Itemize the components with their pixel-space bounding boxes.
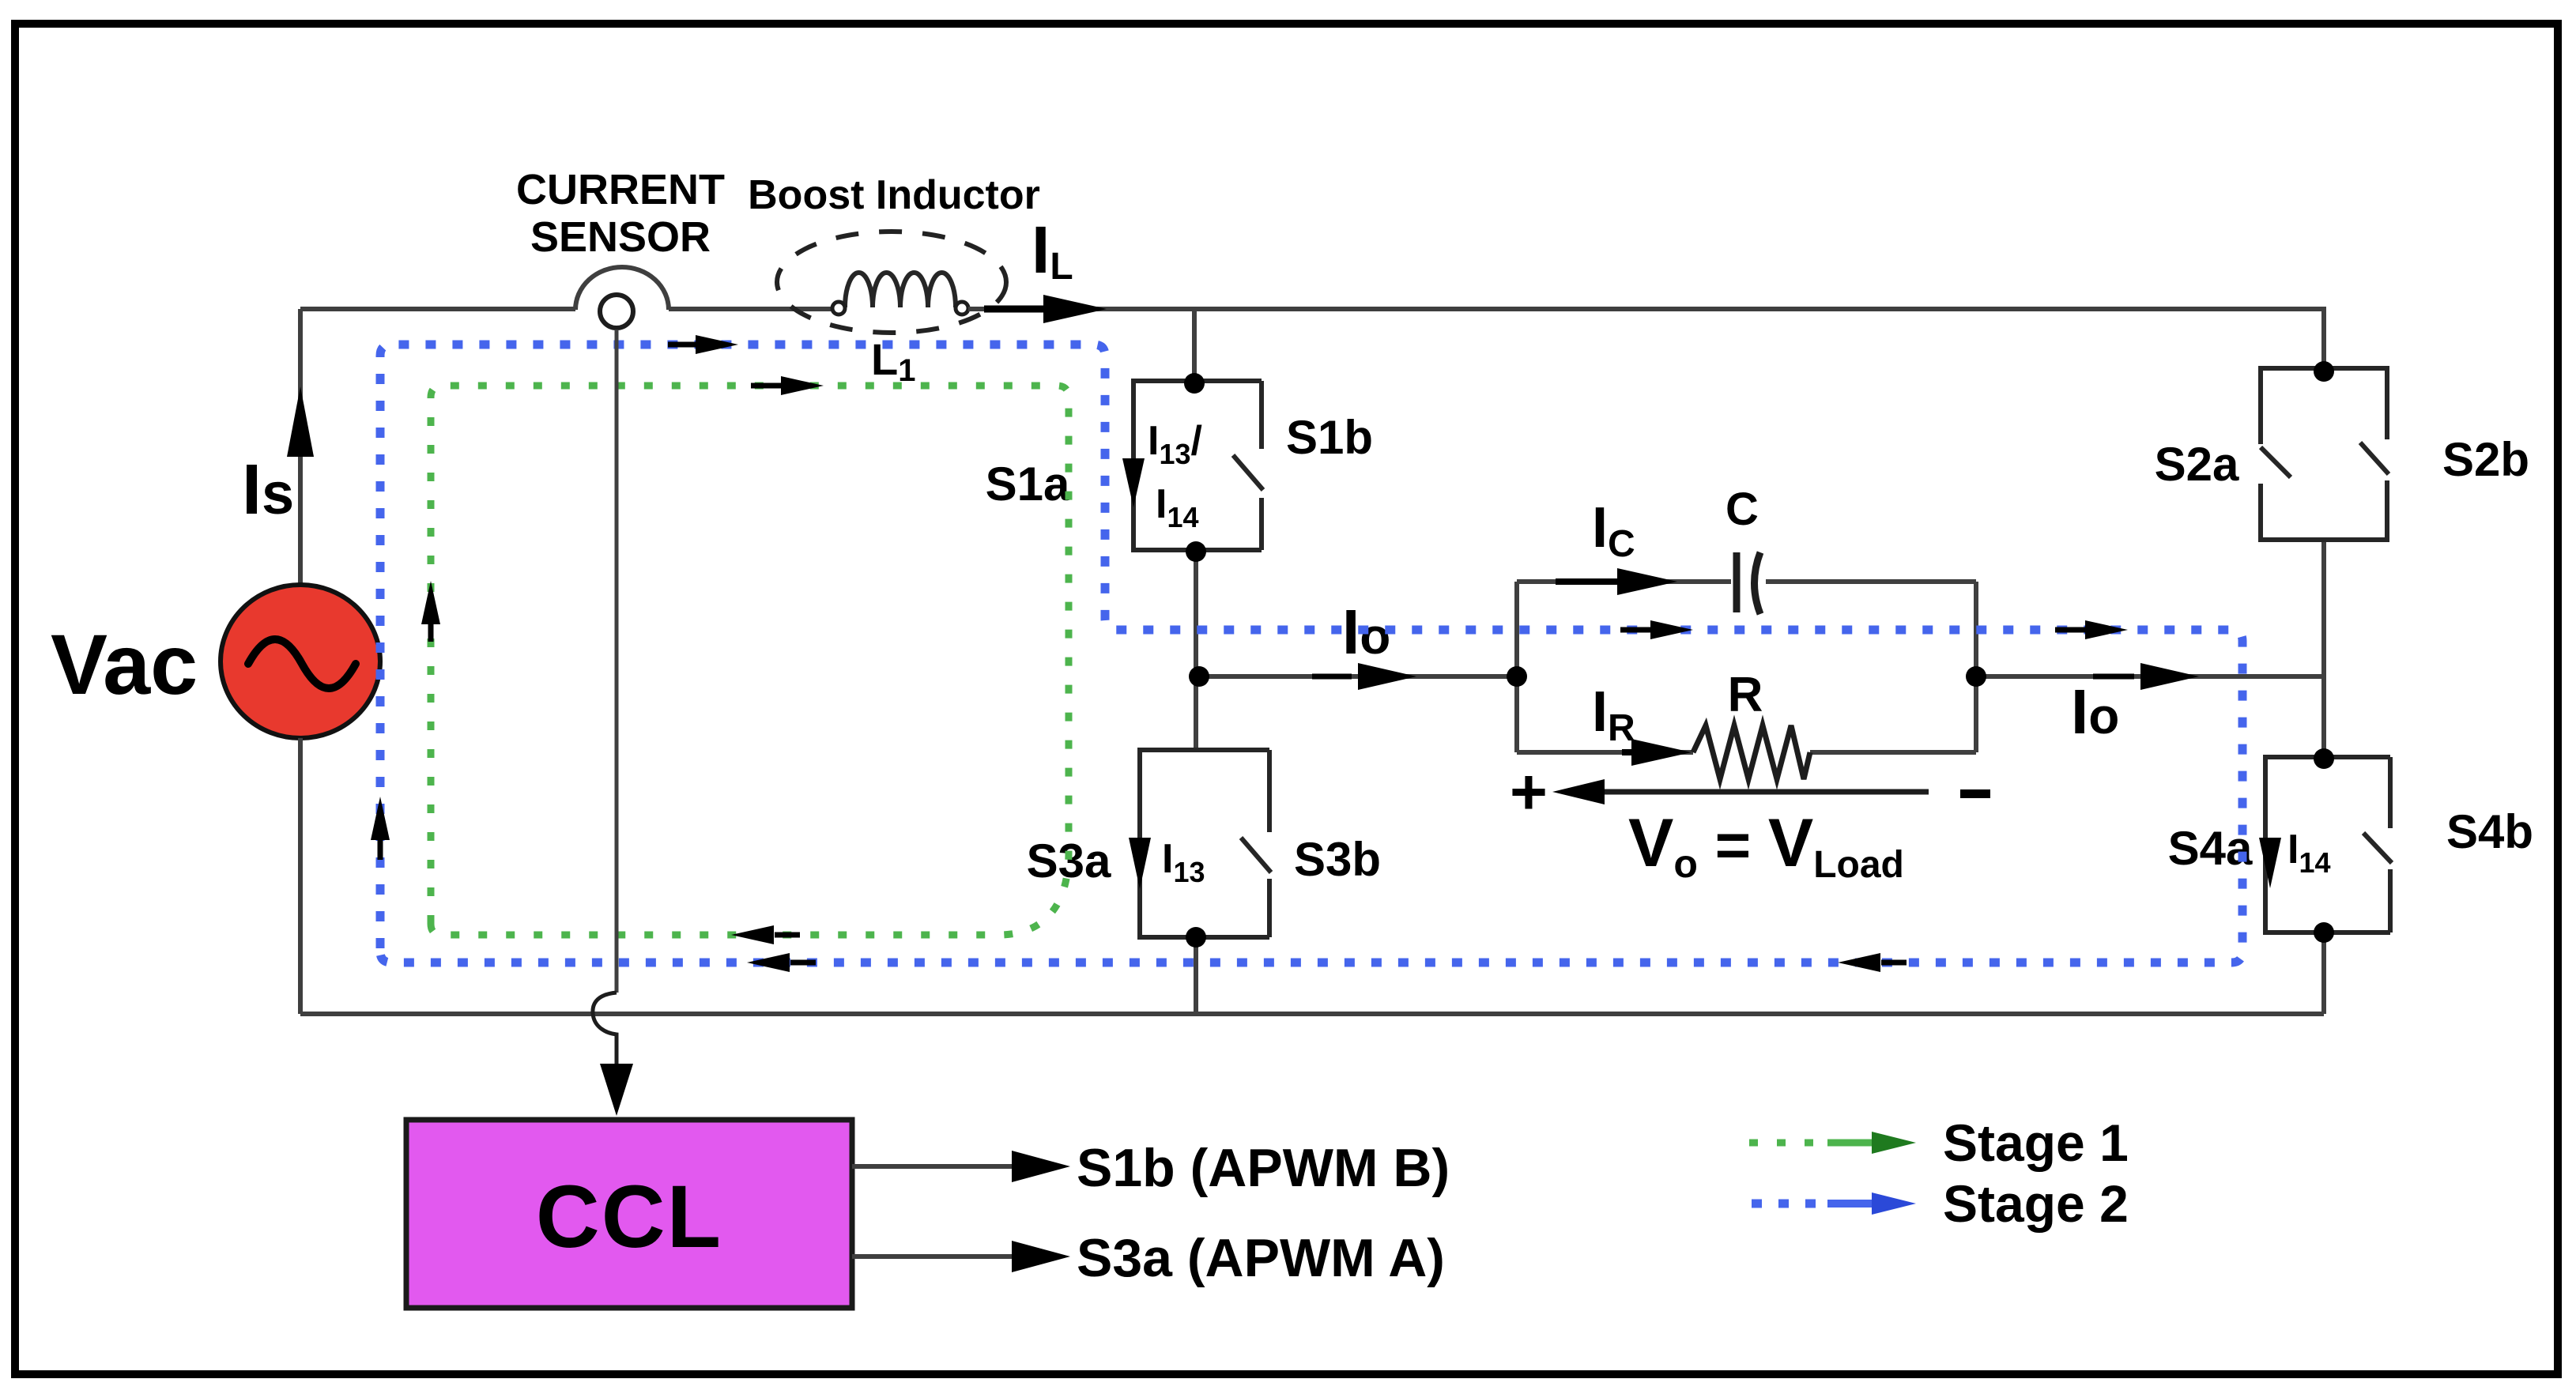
svg-text:Stage 2: Stage 2 (1943, 1174, 2129, 1233)
label minus (1960, 789, 1990, 798)
wire CCL output S3a (852, 1254, 1016, 1259)
wire: top rail left segment (300, 307, 575, 311)
arrow on green bottom line (775, 932, 800, 938)
current sensor window circle (600, 295, 633, 328)
wire: Io output wire right (1976, 674, 2324, 679)
svg-text:S2b: S2b (2442, 433, 2529, 486)
RC load box left side (1514, 582, 1519, 752)
arrow on blue middle line in RC box (1620, 627, 1652, 633)
svg-text:S1b (APWM B): S1b (APWM B) (1077, 1138, 1450, 1198)
svg-text:R: R (1728, 668, 1763, 722)
svg-text:S4b: S4b (2446, 805, 2533, 858)
node RC right (1966, 666, 1986, 687)
wire: top rail between sensor and inductor (669, 307, 835, 311)
svg-text:CURRENT: CURRENT (516, 166, 725, 213)
arrow on blue middle line after RC box (2055, 627, 2087, 633)
switch S2 (S2a/S2b) box (2261, 368, 2387, 444)
svg-text:S3b: S3b (1294, 833, 1381, 886)
switch S1 (S1a/S1b) box (1133, 381, 1262, 550)
arrow Is up (287, 386, 314, 457)
svg-text:S1b: S1b (1286, 411, 1373, 464)
wire CCL output S1b (852, 1164, 1016, 1169)
arrow on blue left vertical (378, 839, 383, 860)
arrow on green top line (751, 383, 783, 389)
resistor R zigzag (1693, 725, 1810, 779)
svg-text:S1a: S1a (986, 458, 1070, 511)
AC source Vac (221, 585, 380, 738)
switch blade S1b (1233, 455, 1263, 490)
wire: right branch between S2 and S4 (2321, 540, 2326, 757)
switch S3 (S3a/S3b) box (1140, 750, 1269, 937)
sensor lead hop over bottom rail (593, 993, 617, 1068)
RC load top branch with capacitor gap (1517, 579, 1976, 584)
wire: between S1 and S3 (1194, 552, 1198, 750)
legend Stage 1 green dotted arrow (1749, 1140, 1826, 1147)
voltage measurement line (1578, 789, 1929, 795)
Stage 2 blue dotted loop (380, 345, 2242, 963)
svg-text:CCL: CCL (536, 1167, 722, 1266)
RC load bottom branch leads (1517, 750, 1976, 755)
arrow I13/I14 inside S1 (1122, 458, 1145, 507)
current sensor bump (575, 267, 669, 310)
inductor L1 left terminal (832, 302, 845, 315)
arrow I13 inside S3 (1129, 838, 1151, 889)
inductor L1 coil (845, 273, 956, 307)
current sensor vertical lead (615, 330, 619, 993)
arrow on blue bottom line right (1881, 960, 1907, 966)
wire: below Vac (298, 738, 303, 1014)
arrow Io left wire (1312, 674, 1352, 680)
arrow into CCL (600, 1064, 633, 1116)
legend Stage 2 blue dotted arrow (1752, 1200, 1826, 1208)
node RC left (1507, 666, 1527, 687)
wire: top rail right segment with corner down to S2 (968, 309, 2324, 368)
switch blade S2a (2261, 447, 2291, 477)
switch blade S2b (2360, 443, 2389, 474)
Stage 1 green dotted loop (431, 386, 1069, 935)
svg-text:Stage 1: Stage 1 (1943, 1113, 2129, 1172)
arrow IL on top rail (984, 306, 1051, 313)
arrow Io right wire (2093, 674, 2134, 680)
svg-text:Is: Is (242, 450, 294, 529)
arrow on blue bottom line left (790, 960, 816, 966)
switch blade S3b (1241, 838, 1271, 872)
capacitor C right plate (1755, 552, 1761, 614)
svg-text:Boost Inductor: Boost Inductor (748, 172, 1040, 218)
switch blade S4b (2363, 833, 2392, 863)
svg-text:Io: Io (2071, 676, 2119, 747)
CCL controller box (406, 1120, 852, 1308)
svg-text:C: C (1726, 484, 1759, 535)
svg-text:S3a (APWM A): S3a (APWM A) (1077, 1228, 1445, 1288)
wire: S4 bottom to bottom rail (2321, 932, 2326, 1014)
arrow IC on capacitor branch (1556, 578, 1617, 585)
node S3 bottom / Io junction (1189, 666, 1209, 687)
boost inductor dashed ellipse (777, 232, 1006, 333)
RC load right side (1974, 582, 1978, 752)
switch S4 (S4a/S4b) box (2265, 757, 2390, 932)
svg-text:Vac: Vac (51, 616, 198, 712)
svg-text:SENSOR: SENSOR (530, 213, 711, 261)
arrow I14 inside S4 (2259, 838, 2281, 888)
svg-text:+: + (1510, 756, 1548, 828)
arrow on blue top line (668, 342, 700, 348)
capacitor C left plate (1733, 552, 1741, 612)
node S4 bottom (2314, 922, 2334, 943)
inductor L1 right terminal (956, 302, 968, 315)
wire: S1 branch drop from top rail (1192, 309, 1197, 381)
node S1 top (1184, 373, 1205, 394)
wire: Io output wire left (1199, 674, 1517, 679)
node S4 top (2314, 748, 2334, 769)
wire: S3 bottom to bottom rail (1194, 937, 1198, 1014)
node S1 bottom (1186, 541, 1206, 562)
wire: left vertical Is wire (298, 309, 303, 584)
wire: bottom rail (300, 1012, 2324, 1016)
arrow on green left vertical (428, 618, 434, 642)
svg-text:S2a: S2a (2155, 438, 2239, 491)
arrow IR on resistor branch (1622, 749, 1633, 755)
node S2 top (2314, 361, 2334, 382)
